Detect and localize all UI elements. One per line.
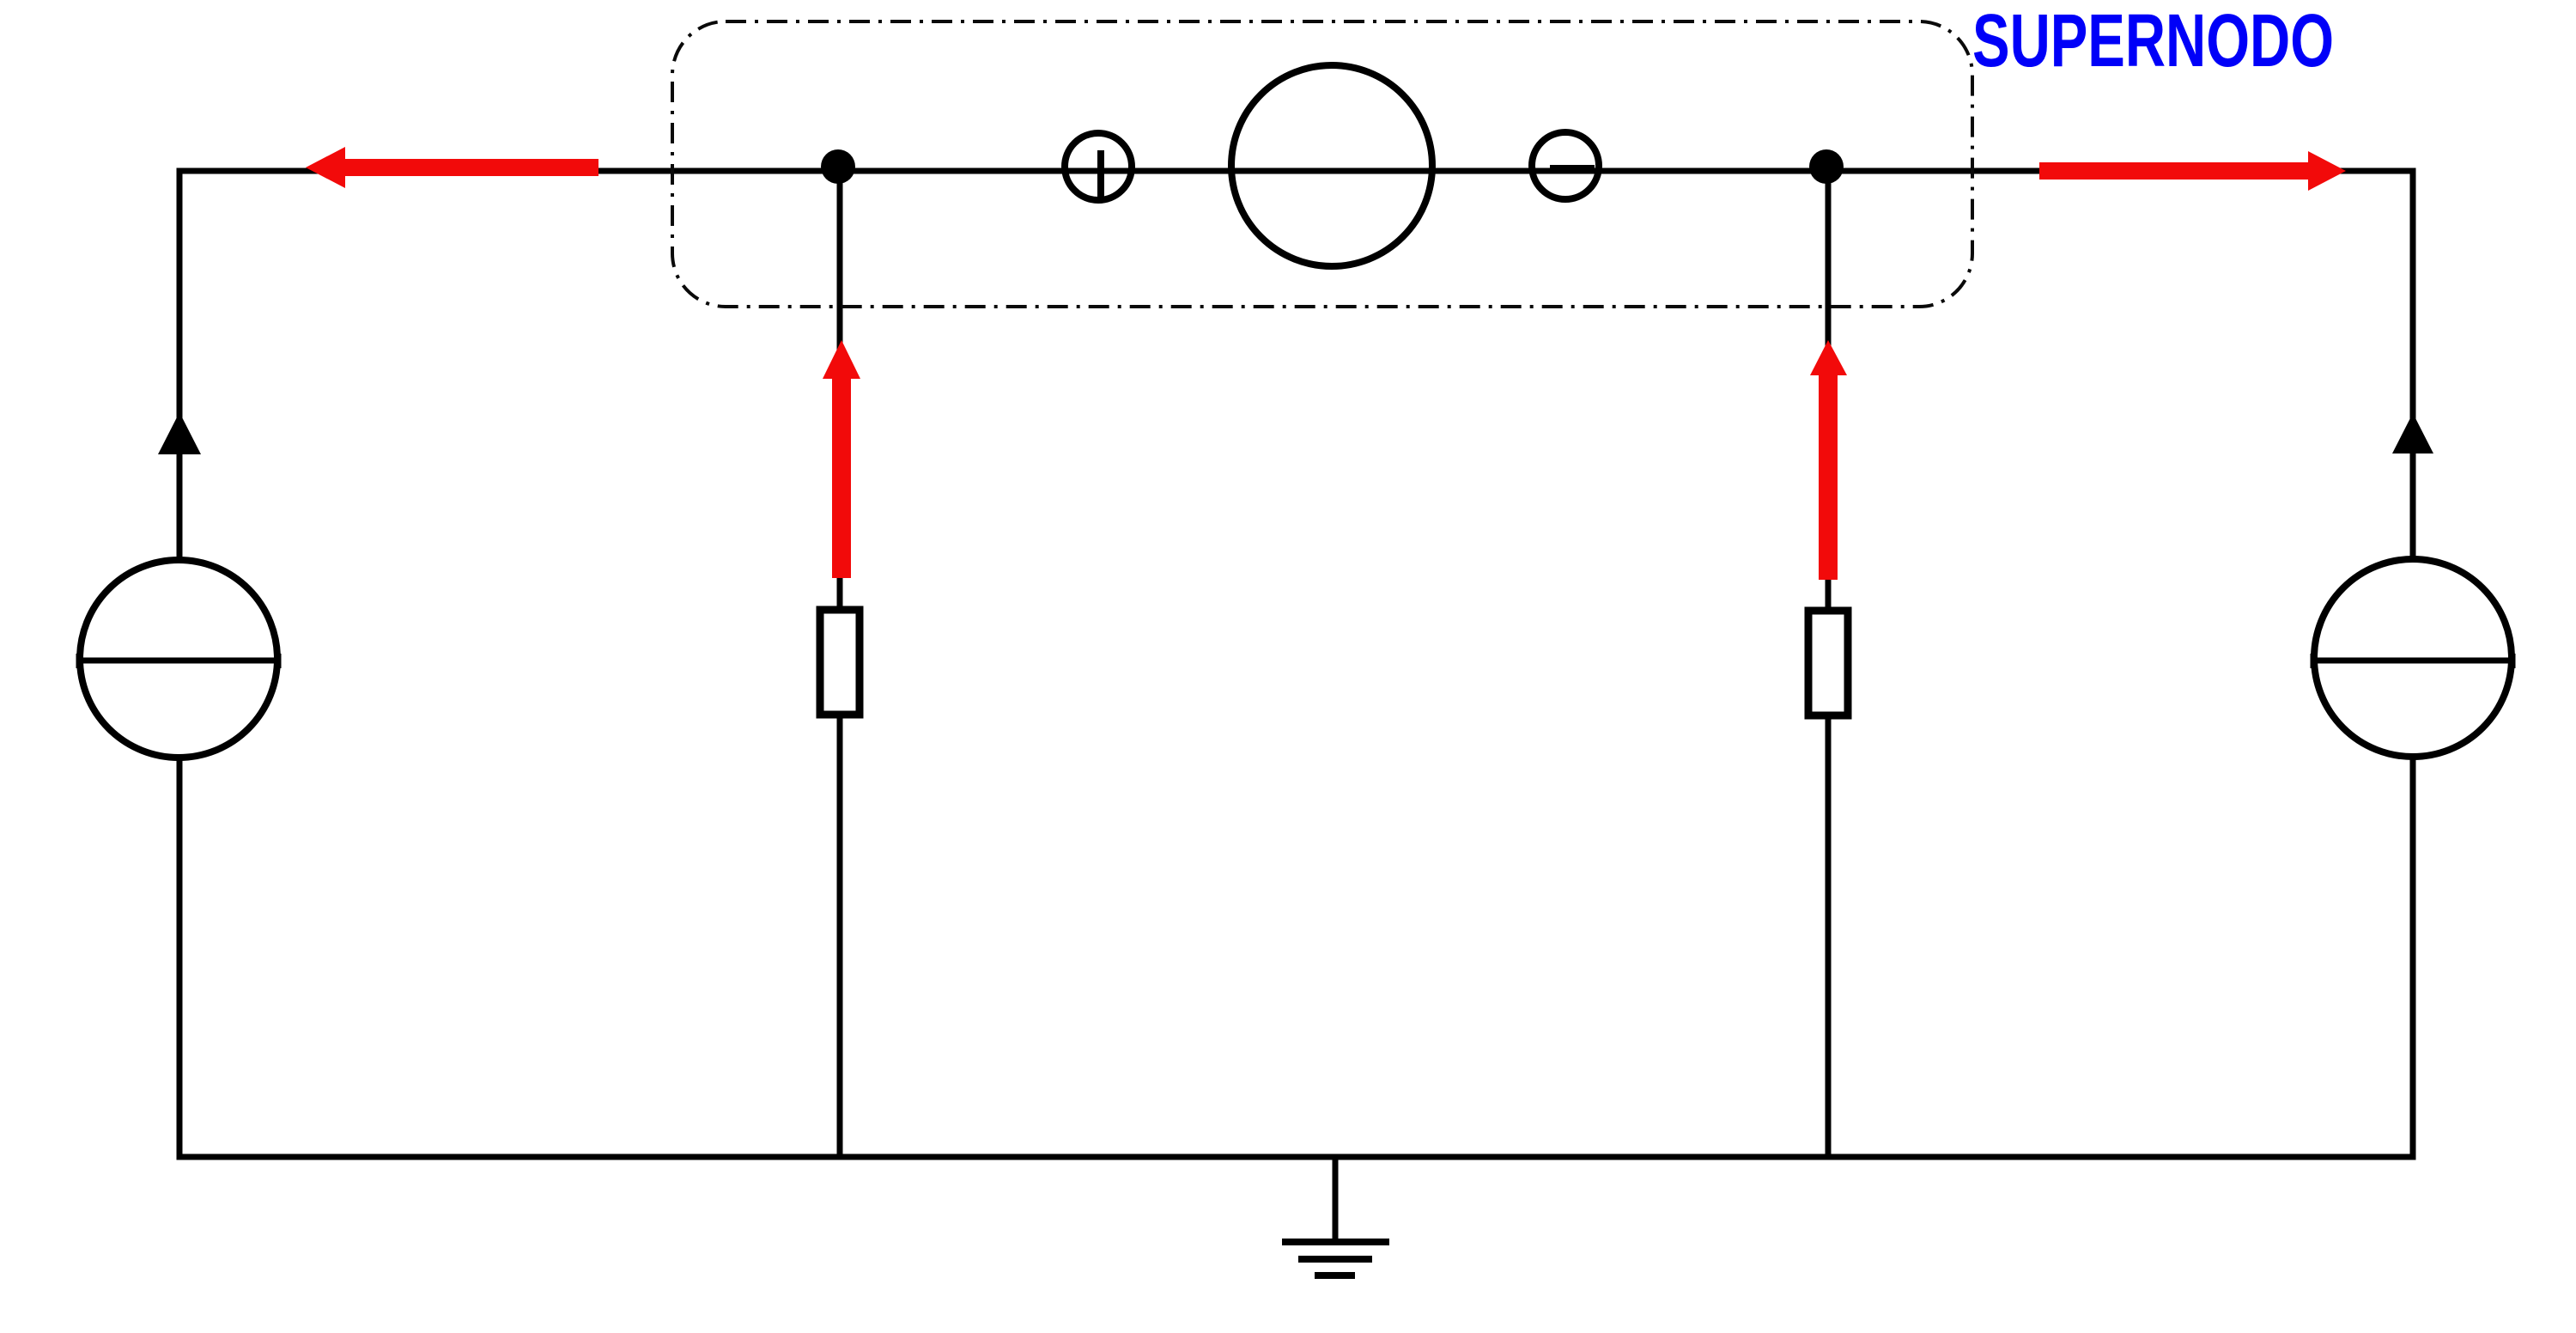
- current arrow (red, middle-left pointing up): [823, 340, 860, 578]
- resistor R1 (middle-left): [820, 610, 860, 715]
- wire: middle-right branch (upper segment to resistor): [1826, 167, 1832, 612]
- wire: middle-right branch (lower segment from resistor): [1826, 714, 1832, 1160]
- node A (left junction dot): [821, 149, 855, 184]
- polarity mark: plus terminal circle: [1065, 133, 1132, 200]
- wire: top horizontal net (node 1 - supernode - node 2): [177, 168, 2416, 174]
- wire: middle-left branch (upper segment to resistor): [837, 167, 843, 612]
- node B (right junction dot): [1809, 149, 1844, 184]
- current source I1 (left): [76, 560, 281, 758]
- wire: bottom horizontal net (reference node): [177, 1154, 2416, 1160]
- current arrow (red, top-left pointing left): [306, 147, 598, 188]
- voltage source V1 (circle in supernode): [1231, 65, 1432, 266]
- current source I2 (right): [2311, 559, 2515, 757]
- svg-text:SUPERNODO: SUPERNODO: [1972, 0, 2334, 82]
- current arrow (red, top-right pointing right): [2039, 151, 2346, 191]
- wire: right vertical branch (upper segment): [2410, 168, 2416, 561]
- current arrow (red, middle-right pointing up): [1810, 340, 1847, 580]
- resistor R2 (middle-right): [1808, 611, 1848, 715]
- current direction arrowhead (right branch, black): [2392, 413, 2433, 453]
- ground: [1282, 1157, 1389, 1275]
- wire: middle-left branch (lower segment from resistor): [837, 713, 843, 1160]
- current direction arrowhead (left branch, black): [158, 412, 201, 454]
- supernode boundary (dashed region): [672, 21, 1972, 307]
- wire: left vertical branch (lower segment): [177, 757, 183, 1160]
- polarity mark: minus terminal circle: [1532, 132, 1599, 199]
- wire: right vertical branch (lower segment): [2410, 756, 2416, 1160]
- wire: left vertical branch (upper segment): [177, 168, 183, 562]
